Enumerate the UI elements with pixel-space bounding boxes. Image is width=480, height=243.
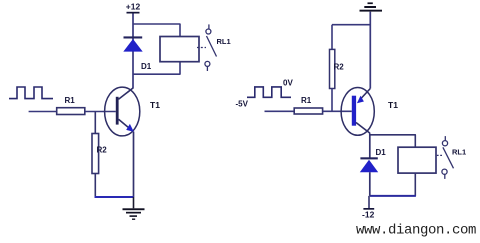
svg-text:T1: T1: [388, 100, 398, 110]
svg-text:-5V: -5V: [236, 100, 249, 109]
svg-text:RL1: RL1: [452, 148, 466, 157]
svg-text:D1: D1: [141, 62, 152, 71]
svg-text:R2: R2: [334, 63, 345, 72]
svg-text:R1: R1: [301, 96, 312, 105]
svg-text:RL1: RL1: [217, 37, 231, 46]
svg-text:0V: 0V: [283, 79, 293, 88]
svg-text:R1: R1: [65, 96, 76, 105]
svg-text:+12: +12: [126, 2, 141, 12]
svg-text:www.diangon.com: www.diangon.com: [356, 223, 476, 239]
svg-text:R2: R2: [97, 146, 108, 155]
svg-text:-12: -12: [362, 210, 375, 220]
svg-text:D1: D1: [376, 148, 387, 157]
svg-text:T1: T1: [150, 100, 160, 110]
